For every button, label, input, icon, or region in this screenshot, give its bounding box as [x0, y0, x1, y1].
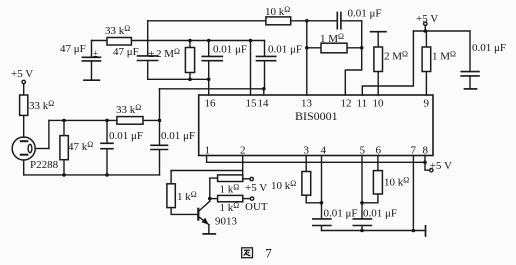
svg-text:0.01 μF: 0.01 μF [324, 208, 358, 220]
svg-text:+5 V: +5 V [430, 160, 452, 172]
svg-text:11: 11 [357, 98, 368, 110]
svg-text:0.01 μF: 0.01 μF [472, 42, 506, 54]
svg-text:0.01 μF: 0.01 μF [109, 130, 143, 142]
svg-text:0.01 μF: 0.01 μF [213, 44, 247, 56]
svg-text:4: 4 [321, 145, 327, 157]
svg-text:14: 14 [258, 98, 270, 110]
svg-text:47 μF: 47 μF [60, 43, 86, 55]
svg-text:2: 2 [240, 145, 246, 157]
svg-text:9: 9 [424, 98, 430, 110]
svg-text:8: 8 [423, 145, 429, 157]
svg-text:+5 V: +5 V [245, 182, 267, 194]
svg-text:±: ± [148, 48, 154, 60]
svg-text:15: 15 [246, 98, 258, 110]
svg-text:+5 V: +5 V [11, 68, 33, 80]
svg-text:6: 6 [376, 145, 382, 157]
svg-text:16: 16 [205, 98, 217, 110]
svg-text:13: 13 [301, 98, 313, 110]
svg-text:P2288: P2288 [30, 159, 59, 171]
svg-text:0.01 μF: 0.01 μF [348, 8, 382, 20]
svg-text:7: 7 [265, 245, 272, 260]
svg-text:1: 1 [205, 145, 211, 157]
svg-text:5: 5 [360, 145, 366, 157]
svg-text:0.01 μF: 0.01 μF [161, 130, 195, 142]
svg-text:BIS0001: BIS0001 [295, 109, 338, 123]
svg-text:47 μF: 47 μF [113, 46, 139, 58]
svg-text:0.01 μF: 0.01 μF [268, 44, 302, 56]
svg-text:±: ± [93, 49, 98, 59]
svg-text:12: 12 [341, 98, 352, 110]
svg-text:10: 10 [373, 98, 385, 110]
svg-text:7: 7 [411, 145, 417, 157]
svg-text:+5 V: +5 V [416, 13, 438, 25]
svg-text:OUT: OUT [245, 201, 268, 213]
svg-text:3: 3 [304, 145, 310, 157]
svg-text:0.01 μF: 0.01 μF [363, 208, 397, 220]
svg-text:9013: 9013 [215, 216, 238, 228]
